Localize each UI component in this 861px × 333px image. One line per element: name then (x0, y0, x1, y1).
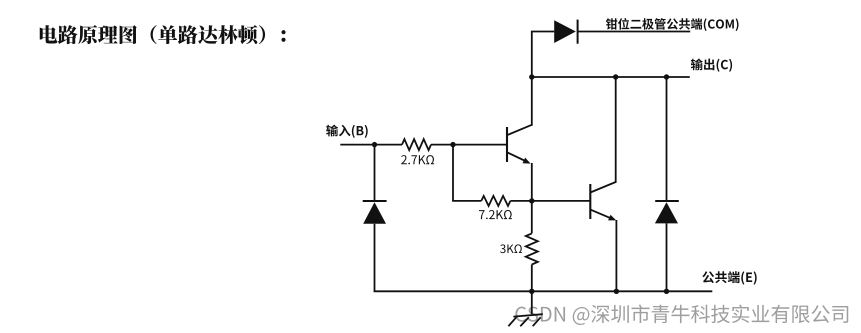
transistor Q2 emitter diagonal (590, 210, 613, 220)
node output/COM column junction (529, 74, 534, 79)
wire input junction down to D1 cathode (374, 145, 376, 201)
transistor Q1 base bar (506, 127, 508, 162)
wire bottom emitter rail (374, 290, 713, 292)
wire Q2 collector up to output (615, 77, 617, 183)
node Q2 emitter rail junction (614, 289, 619, 294)
wire rail down to ground (531, 291, 533, 314)
wire Q2 emitter down to rail (615, 220, 617, 291)
wire output line (532, 76, 690, 78)
transistor Q2 base bar (589, 184, 591, 219)
wire D2 anode down to rail (666, 223, 668, 291)
wire emitter node to Q2 base (532, 200, 591, 202)
ground chassis bar (513, 314, 542, 316)
transistor Q1 emitter diagonal (507, 152, 528, 162)
transistor Q1 emitter arrowhead (523, 158, 531, 164)
net label 钳位二极管公共端(COM) (606, 18, 739, 31)
diode D2 triangle (655, 202, 678, 223)
transistor Q2 collector diagonal (590, 182, 615, 193)
diode D2 output clamp: cathode bar (655, 200, 679, 202)
diode D1 triangle (363, 202, 386, 224)
wire R3 to rail (531, 265, 533, 292)
transistor Q2 emitter arrowhead (608, 215, 616, 221)
node input/diode junction (372, 142, 377, 147)
node D2 rail junction (664, 289, 669, 294)
net label 输入(B) (326, 125, 368, 138)
net label 输出(C) (691, 58, 732, 71)
wire D1 anode down to emitter rail (374, 224, 376, 291)
net label 公共端(E) (702, 271, 756, 284)
node Q1 base junction (450, 142, 455, 147)
resistor R1 2.7K zigzag (402, 139, 431, 150)
node Q1 emitter / Q2 base junction (529, 198, 534, 203)
wire Q1 emitter down to node (531, 163, 533, 201)
resistor R2 7.2K zigzag (481, 196, 510, 206)
ground hatch 1 (508, 317, 516, 326)
wire input left segment (340, 144, 402, 146)
wire R1 to Q1 base (431, 144, 507, 146)
wire R2 to emitter node (510, 200, 531, 202)
transistor Q1 collector diagonal (507, 125, 532, 135)
ground hatch 3 (533, 317, 541, 326)
wire base node down (452, 145, 454, 201)
diode D3 cathode bar (577, 20, 579, 44)
resistor R1 value 2.7KΩ (401, 155, 434, 164)
watermark CSDN @深圳市青牛科技实业有限公司 (515, 305, 848, 325)
node rail/ground junction (529, 289, 534, 294)
wire Q1 collector up to output/COM column (531, 32, 533, 126)
resistor R2 value 7.2KΩ (479, 210, 512, 219)
ground hatch 2 (520, 317, 529, 326)
title 电路原理图（单路达林顿）： (40, 25, 286, 44)
diode D3 COM clamp triangle (554, 20, 576, 43)
diode D1 input clamp: cathode bar (363, 200, 387, 202)
resistor R3 value 3KΩ (500, 244, 522, 253)
wire D2 column top (666, 77, 668, 201)
resistor R3 3K zigzag (526, 233, 538, 264)
wire COM line left (531, 31, 554, 33)
wire emitter node down to R3 (531, 201, 533, 234)
node D2 output junction (664, 74, 669, 79)
wire base node to R2 (452, 200, 481, 202)
node Q2 collector junction (613, 74, 618, 79)
wire COM line right (578, 31, 691, 33)
